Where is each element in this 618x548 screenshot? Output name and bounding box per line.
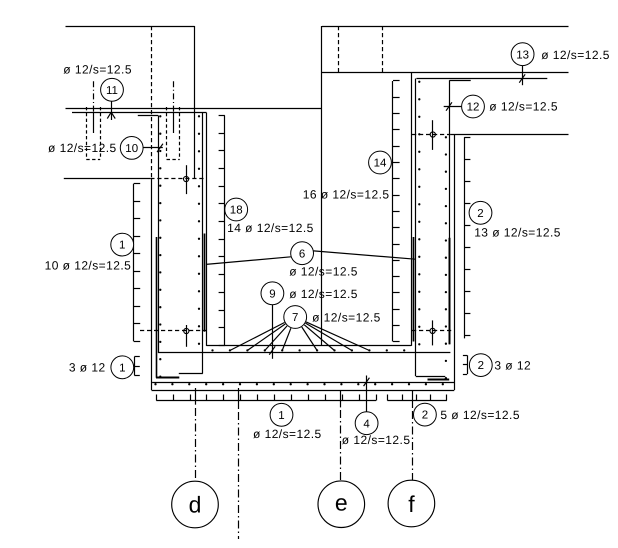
right wall outer lap bar (thick) — [449, 238, 451, 344]
callout 6 — [291, 242, 314, 265]
left wall outer bar top hook — [138, 115, 158, 117]
callout 2 slab — [414, 403, 437, 426]
svg-text:2: 2 — [477, 208, 483, 220]
left wall inner dots — [198, 115, 200, 345]
left wall foot hook upper — [179, 373, 203, 375]
right wall outer face — [454, 134, 456, 390]
right wall inner dots — [418, 81, 420, 346]
upper-right wall left face — [321, 26, 323, 346]
label 2 slab text — [440, 408, 520, 422]
slab top bar line — [158, 352, 451, 354]
right wall centre mark lower — [430, 320, 435, 345]
leader 4 — [364, 376, 370, 412]
label 2 wall text — [474, 226, 561, 240]
dimension comb left — [156, 395, 376, 401]
grid bubble d — [172, 481, 219, 528]
right wall outer dots — [445, 136, 447, 379]
left wall inner bar — [202, 113, 204, 374]
svg-text:1: 1 — [119, 362, 125, 374]
svg-text:1: 1 — [119, 240, 125, 252]
right wall outer bar top hook — [450, 80, 471, 82]
left ground line — [66, 108, 322, 110]
bracket 3d12 right — [463, 355, 468, 374]
right wall lower axis (dashed) — [412, 330, 454, 332]
svg-text:e: e — [335, 490, 348, 516]
left wall lower axis (dashed) — [140, 330, 207, 332]
leader 6 right — [314, 251, 416, 259]
left wall outer face — [151, 179, 153, 390]
right wall outer bar — [449, 80, 451, 344]
label 18 text — [227, 221, 314, 235]
right wall upper axis (dashed) — [412, 134, 450, 136]
svg-text:14: 14 — [374, 158, 387, 170]
svg-text:ø 12/s=12.5: ø 12/s=12.5 — [289, 287, 358, 301]
stirrup S1 right leg (dashed) — [100, 107, 102, 159]
left wall outer bar — [158, 116, 160, 353]
axis d2 tick — [238, 388, 240, 409]
axis d tick — [195, 388, 197, 405]
leader 10 — [143, 144, 163, 152]
leader 12 — [444, 102, 462, 110]
callout 2 wall — [469, 201, 492, 224]
callout 1 wall — [111, 233, 134, 256]
slab bottom dots — [154, 383, 444, 385]
callout 2 foot — [469, 354, 492, 377]
upper-right wall joint b (dashed) — [382, 26, 384, 72]
callout 9 — [261, 282, 284, 305]
svg-text:18: 18 — [230, 205, 243, 217]
right wall centre mark upper — [430, 120, 435, 150]
left slab joint line — [72, 112, 207, 114]
label 13 text — [541, 48, 610, 62]
grid bubble f — [388, 480, 435, 527]
label 11 text — [63, 63, 132, 77]
axis e tick — [340, 391, 342, 408]
svg-text:9: 9 — [269, 288, 275, 300]
ladder bar 1 (left outer) — [134, 184, 141, 342]
svg-text:16 ø 12/s=12.5: 16 ø 12/s=12.5 — [303, 188, 390, 202]
svg-text:10 ø 12/s=12.5: 10 ø 12/s=12.5 — [45, 259, 132, 273]
slab bottom edge — [152, 390, 455, 392]
callout 1 foot — [111, 356, 134, 379]
axis d2 (dash-dot) — [238, 412, 240, 539]
callout 12 — [462, 95, 485, 118]
svg-text:3 ø 12: 3 ø 12 — [494, 359, 531, 373]
svg-text:f: f — [408, 491, 415, 517]
left wall centre mark lower — [184, 325, 189, 347]
svg-text:ø 12/s=12.5: ø 12/s=12.5 — [63, 63, 132, 77]
callout 7 — [284, 306, 307, 329]
label 2 foot text — [494, 359, 531, 373]
svg-text:13 ø 12/s=12.5: 13 ø 12/s=12.5 — [474, 226, 561, 240]
callout 18 — [225, 198, 248, 221]
svg-text:2: 2 — [478, 360, 484, 372]
svg-text:1: 1 — [278, 410, 284, 422]
svg-text:ø 12/s=12.5: ø 12/s=12.5 — [342, 433, 411, 447]
stirrup S2 left leg (dashed) — [166, 107, 168, 159]
right wall foot hook lower (thick) — [428, 379, 450, 381]
svg-text:3 ø 12: 3 ø 12 — [69, 361, 106, 375]
label 14 text — [303, 188, 390, 202]
callout 4 — [355, 412, 378, 435]
left wall inner lap bar (thick) — [204, 234, 206, 332]
upper-left wall axis (dashed) — [151, 26, 153, 179]
svg-text:ø 12/s=12.5: ø 12/s=12.5 — [541, 48, 610, 62]
ladder bar 18 (left inner) — [219, 116, 225, 346]
upper-left wall right face — [194, 26, 196, 179]
right wall inner face — [411, 72, 413, 346]
left wall outer dots — [159, 115, 161, 378]
svg-text:4: 4 — [363, 418, 370, 430]
left slab bottom line — [64, 178, 151, 180]
axis f (dash-dot) — [412, 411, 414, 480]
leader 6 left — [206, 257, 291, 265]
left slab bottom hidden (dashed) — [150, 178, 206, 180]
callout 10 — [120, 137, 143, 160]
left wall foot hook lower (thick) — [156, 377, 179, 379]
svg-text:2: 2 — [422, 410, 428, 422]
leader 9 — [269, 305, 275, 359]
callout 14 — [369, 151, 392, 174]
svg-text:5 ø 12/s=12.5: 5 ø 12/s=12.5 — [440, 408, 520, 422]
label 12 text — [489, 100, 558, 114]
slab inner top line — [206, 345, 411, 347]
label 9 text — [289, 287, 358, 301]
leader 13 — [519, 66, 525, 85]
dimension comb right — [387, 395, 447, 401]
leader 11 — [107, 101, 115, 120]
label 4 text — [342, 433, 411, 447]
callout 1 slab — [270, 403, 293, 426]
svg-text:13: 13 — [516, 49, 529, 61]
right slab joint line — [416, 78, 547, 80]
ladder bar 2 (right outer) — [464, 137, 470, 338]
left bar 11a (dash-dot) — [93, 81, 95, 133]
label 1 wall text — [45, 259, 132, 273]
stirrup S1 bottom (dashed) — [86, 159, 100, 161]
left bar 11b (dash-dot) — [173, 81, 175, 133]
svg-text:12: 12 — [467, 102, 480, 114]
stirrup S2 bottom (dashed) — [167, 159, 180, 161]
upper-left wall top edge — [66, 26, 195, 28]
ladder bar 14 (right inner) — [393, 81, 400, 342]
svg-text:11: 11 — [106, 85, 118, 97]
slab bottom bar line — [152, 382, 454, 384]
right slab bottom line — [450, 134, 568, 136]
label 7 text — [312, 311, 381, 325]
label 1 slab text — [253, 427, 322, 441]
label 10 text — [48, 141, 117, 155]
axis e (dash-dot) — [340, 410, 342, 481]
upper-right wall joint a (dashed) — [338, 26, 340, 72]
svg-text:10: 10 — [125, 143, 138, 155]
svg-text:ø 12/s=12.5: ø 12/s=12.5 — [253, 427, 322, 441]
slab top dots — [211, 349, 405, 351]
right wall inner lap bar (thick) — [413, 237, 415, 342]
grid bubble e — [318, 481, 365, 528]
right wall foot hook upper — [416, 376, 446, 378]
axis d (dash-dot) — [195, 408, 197, 481]
svg-text:ø 12/s=12.5: ø 12/s=12.5 — [48, 141, 117, 155]
svg-text:ø 12/s=12.5: ø 12/s=12.5 — [489, 100, 558, 114]
svg-text:d: d — [189, 492, 202, 518]
label 6 text — [289, 264, 358, 278]
bracket 3d12 left — [134, 357, 139, 376]
callout 13 — [511, 43, 534, 66]
svg-text:ø 12/s=12.5: ø 12/s=12.5 — [289, 264, 358, 278]
right ground line — [322, 72, 569, 74]
leader 7 fan — [230, 322, 370, 351]
axis f tick — [412, 391, 414, 408]
upper-right wall top edge — [322, 26, 569, 28]
stirrup S1 left leg (dashed) — [86, 107, 88, 159]
label 1 foot text — [69, 361, 106, 375]
left wall outer lap bar (thick) — [156, 237, 158, 378]
svg-text:ø 12/s=12.5: ø 12/s=12.5 — [312, 311, 381, 325]
left wall centre mark upper — [184, 165, 189, 194]
callout 11 — [101, 78, 124, 101]
svg-text:7: 7 — [292, 312, 298, 324]
right wall inner bar — [415, 79, 417, 377]
left wall inner face — [206, 113, 208, 346]
svg-text:14 ø 12/s=12.5: 14 ø 12/s=12.5 — [227, 221, 314, 235]
svg-text:6: 6 — [299, 248, 305, 260]
stirrup S2 right leg (dashed) — [179, 107, 181, 159]
